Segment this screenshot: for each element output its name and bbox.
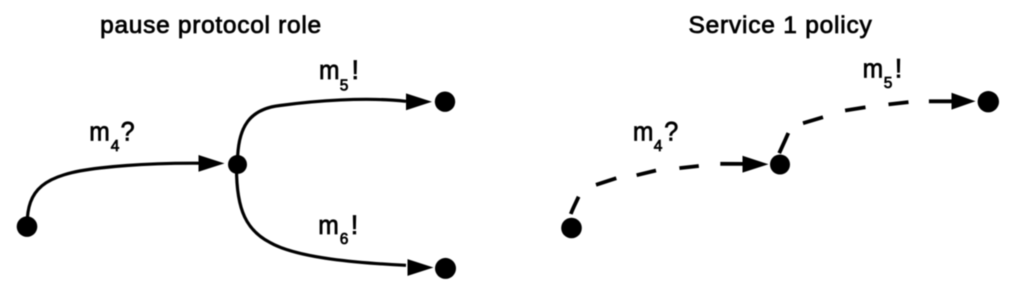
svg-text:4: 4 [654, 138, 663, 155]
svg-text:!: ! [352, 55, 360, 85]
svg-text:?: ? [121, 117, 135, 147]
svg-text:4: 4 [111, 138, 120, 155]
wire: m5 transition curve (left) [238, 99, 407, 161]
svg-text:pause protocol role: pause protocol role [100, 12, 322, 39]
svg-text:m: m [318, 210, 339, 240]
svg-text:m: m [863, 54, 884, 84]
node: right start state [561, 218, 582, 239]
svg-text:6: 6 [340, 231, 349, 248]
node: left middle state [228, 155, 247, 174]
wire: dashed m4 transition (right), drawn as dash segments [571, 164, 743, 214]
svg-text:!: ! [895, 54, 903, 84]
label m4? (left) [89, 117, 134, 155]
arrowhead: m4 transition (left) [199, 155, 225, 172]
label m5! (right) [863, 54, 903, 93]
svg-text:m: m [633, 117, 654, 147]
svg-text:5: 5 [340, 77, 349, 94]
node: left start state [17, 216, 38, 237]
arrowhead: m5 transition (left) [406, 93, 432, 110]
node: left top-right state [435, 92, 455, 112]
node: left bottom-right state [435, 258, 456, 279]
arrowhead: dashed m4 transition (right) [743, 156, 769, 173]
node: right end state [978, 91, 999, 112]
svg-text:?: ? [664, 117, 678, 147]
wire: m4 transition curve (left) [27, 163, 201, 225]
svg-text:5: 5 [884, 75, 893, 92]
label m6! (left) [318, 210, 358, 248]
label m5! (left) [319, 55, 359, 94]
svg-text:!: ! [351, 210, 359, 240]
arrowhead: m6 transition (left) [408, 259, 434, 276]
node: right middle state [770, 155, 790, 175]
svg-text:Service 1 policy: Service 1 policy [688, 12, 872, 39]
wire: m6 transition curve (left) [237, 168, 407, 265]
svg-text:m: m [319, 55, 340, 85]
wire: dashed m5 transition (right), drawn as dash segments [779, 101, 954, 153]
arrowhead: dashed m5 transition (right) [952, 93, 976, 110]
label m4? (right) [633, 117, 678, 156]
svg-text:m: m [89, 117, 110, 147]
